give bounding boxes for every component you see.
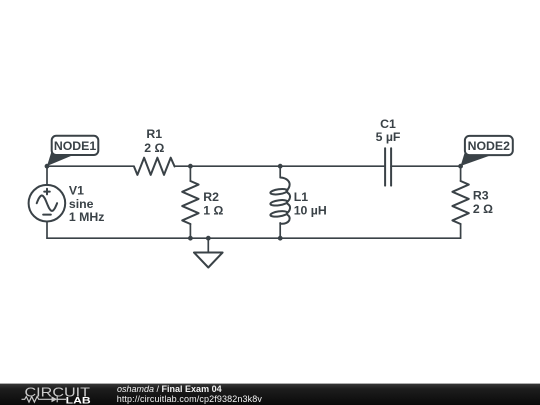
svg-text:2 Ω: 2 Ω	[473, 202, 493, 216]
svg-text:5 µF: 5 µF	[376, 130, 401, 144]
svg-text:L1: L1	[294, 190, 309, 204]
svg-text:R3: R3	[473, 189, 489, 203]
svg-text:R1: R1	[146, 127, 162, 141]
svg-text:sine: sine	[69, 197, 94, 211]
svg-text:2 Ω: 2 Ω	[144, 141, 164, 155]
svg-text:C1: C1	[380, 117, 396, 131]
svg-text:10 µH: 10 µH	[294, 203, 327, 217]
svg-text:NODE2: NODE2	[468, 139, 511, 153]
svg-text:1 Ω: 1 Ω	[203, 203, 223, 217]
svg-text:1 MHz: 1 MHz	[69, 210, 105, 224]
svg-text:http://circuitlab.com/cp2f9382: http://circuitlab.com/cp2f9382n3k8v	[117, 394, 263, 404]
svg-text:oshamda / Final Exam 04: oshamda / Final Exam 04	[117, 384, 222, 394]
svg-text:LAB: LAB	[66, 395, 91, 405]
svg-text:V1: V1	[69, 184, 84, 198]
svg-text:NODE1: NODE1	[54, 139, 97, 153]
svg-text:R2: R2	[203, 190, 219, 204]
